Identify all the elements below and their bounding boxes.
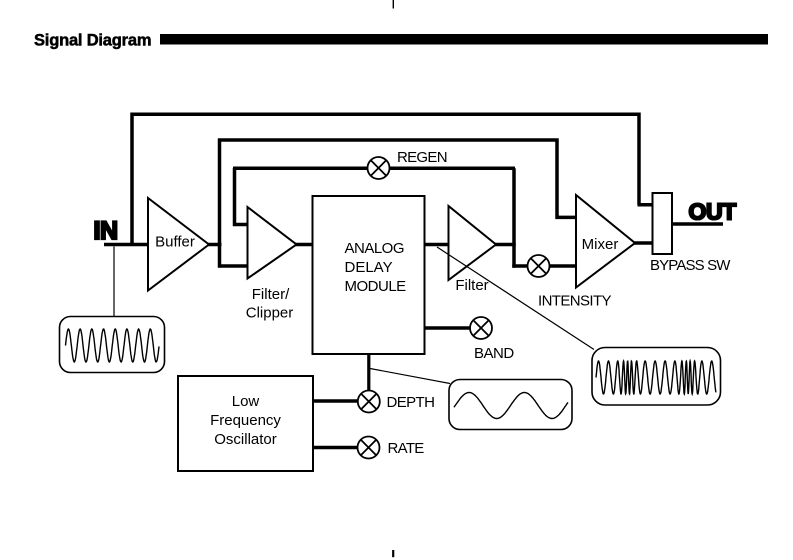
svg-text:Low: Low	[232, 393, 260, 410]
svg-text:INTENSITY: INTENSITY	[538, 293, 612, 310]
svg-text:Mixer: Mixer	[582, 236, 619, 253]
svg-text:ANALOG: ANALOG	[345, 240, 405, 257]
wire: dry signal top run to mixer	[218, 140, 577, 217]
title rule bar	[160, 34, 768, 45]
wire: regen return into filter/clipper upper input	[235, 168, 249, 225]
svg-text:OUT: OUT	[689, 199, 737, 225]
wire: LFO to DEPTH pot	[312, 399, 359, 403]
wire: filter/clipper to delay module	[295, 243, 314, 247]
block: low frequency oscillator	[178, 376, 313, 471]
op-amp filter	[449, 206, 497, 280]
block: bypass switch	[653, 193, 673, 254]
wire: regen line across	[233, 167, 515, 171]
pot REGEN	[368, 157, 390, 179]
pointer line: input waveform callout	[113, 247, 115, 318]
callout box: input waveform	[60, 317, 165, 373]
wire: buffer to filter/clipper lower input	[218, 264, 249, 268]
wire: dry signal vertical at buffer output	[218, 139, 222, 268]
callout box: modulated delay waveform	[592, 348, 721, 406]
waveform: input sine	[66, 329, 160, 362]
waveform: frequency modulated sine	[596, 361, 716, 394]
wire: delay module bottom to DEPTH pot	[367, 353, 370, 393]
wire: mixer output to bypass switch	[633, 241, 653, 245]
wire: bypass switch to OUT	[671, 222, 723, 226]
pot DEPTH	[358, 391, 380, 413]
pointer line: LFO waveform callout	[370, 369, 450, 384]
op-amp filter/clipper	[248, 207, 297, 279]
bottom crop mark	[392, 550, 394, 557]
svg-text:REGEN: REGEN	[397, 149, 447, 166]
wire: top feedback (dry bypass) IN junction up, across, down to bypass switch	[132, 114, 653, 246]
svg-text:Filter: Filter	[455, 277, 488, 294]
wire: buffer output	[207, 243, 222, 247]
block: analog delay module	[313, 196, 425, 354]
svg-text:DEPTH: DEPTH	[387, 394, 435, 411]
svg-text:DELAY: DELAY	[345, 259, 393, 276]
pot RATE	[358, 437, 380, 459]
callout box: LFO waveform	[449, 380, 572, 430]
svg-text:Oscillator: Oscillator	[214, 431, 277, 448]
wire: delay module to BAND pot	[424, 326, 472, 330]
wire: delay module to filter	[424, 243, 450, 247]
top crop mark	[392, 0, 394, 9]
pot INTENSITY	[528, 255, 550, 277]
svg-text:Clipper: Clipper	[246, 305, 294, 322]
svg-text:BAND: BAND	[474, 345, 514, 362]
svg-text:Frequency: Frequency	[210, 412, 281, 429]
pointer line: delayed waveform callout	[437, 247, 594, 350]
svg-text:BYPASS SW: BYPASS SW	[650, 257, 731, 274]
svg-text:Filter/: Filter/	[252, 286, 290, 303]
wire: IN to buffer input	[104, 243, 149, 247]
pot BAND	[470, 317, 492, 339]
wire: filter output to regen tap	[494, 243, 516, 247]
svg-text:IN: IN	[94, 217, 118, 245]
wire: LFO to RATE pot	[312, 446, 359, 450]
op-amp mixer	[576, 195, 635, 288]
wire: regen tap vertical (filter output down to intensity)	[512, 168, 516, 267]
wire: intensity line to mixer lower input	[512, 264, 577, 268]
svg-text:Signal Diagram: Signal Diagram	[34, 32, 151, 50]
svg-text:Buffer: Buffer	[155, 234, 195, 251]
svg-text:RATE: RATE	[388, 440, 425, 457]
svg-text:MODULE: MODULE	[345, 278, 407, 295]
op-amp buffer	[148, 198, 209, 291]
waveform: LFO sine	[454, 393, 568, 419]
